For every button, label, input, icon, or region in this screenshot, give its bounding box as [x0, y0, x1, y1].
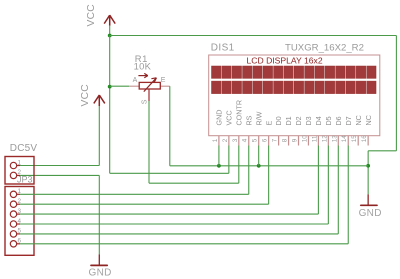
pin DIS1.5 R/W: [252, 111, 264, 145]
svg-text:NC: NC: [364, 115, 373, 125]
wire GND row: [170, 165, 368, 167]
svg-text:5: 5: [252, 138, 259, 142]
wire DC5V pin1 row: [20, 165, 99, 167]
wire right horizontal to pin16 column: [368, 150, 396, 152]
pin DIS1.4 RS: [242, 115, 254, 145]
pin DC5V.2: [10, 169, 21, 178]
wire LCD pin2 to VCC row: [228, 146, 230, 174]
LCD character cells: [212, 66, 377, 94]
svg-text:VCC: VCC: [224, 110, 233, 125]
svg-text:6: 6: [262, 138, 269, 142]
svg-text:D4: D4: [314, 116, 323, 125]
svg-text:2: 2: [222, 138, 229, 142]
wire JP3.3 to LCD pin 11: [20, 146, 318, 215]
svg-text:LCD DISPLAY 16x2: LCD DISPLAY 16x2: [247, 55, 323, 65]
svg-text:D5: D5: [324, 116, 333, 125]
svg-text:RS: RS: [244, 115, 253, 125]
pin DIS1.6 E: [262, 121, 274, 146]
svg-text:11: 11: [311, 135, 318, 142]
ground symbol GND (right): [359, 194, 382, 218]
svg-text:DIS1: DIS1: [211, 43, 235, 54]
svg-text:VCC: VCC: [80, 84, 91, 107]
power symbol VCC (left): [80, 84, 105, 107]
pin stub R1.S: [148, 89, 150, 101]
pin JP3.4: [10, 218, 21, 227]
wire R1.S down: [148, 101, 150, 183]
svg-text:GND: GND: [215, 110, 224, 126]
pin JP3.6: [10, 238, 21, 247]
wire right vertical: [395, 36, 397, 151]
node junction LCD pin5: [257, 164, 261, 168]
svg-text:NC: NC: [354, 115, 363, 125]
pin JP3.1: [10, 188, 21, 197]
svg-text:D7: D7: [344, 116, 353, 125]
connector JP3: [5, 175, 34, 256]
wire branch to R1 A: [110, 85, 130, 87]
node VCC top junction: [108, 34, 112, 38]
svg-text:15: 15: [351, 135, 358, 143]
ground symbol GND (left): [89, 254, 112, 278]
node junction LCD pin1: [217, 164, 221, 168]
svg-text:16: 16: [361, 135, 368, 143]
wire VCC vertical x=109.7: [109, 36, 111, 174]
svg-text:10: 10: [301, 135, 308, 143]
R1 adjust arrow: [138, 75, 147, 77]
wire R1.E down to GND row: [169, 86, 171, 166]
pin JP3.3: [10, 208, 21, 217]
wire pin16 column down to GND: [367, 151, 369, 195]
wire DC5V pin2 row: [20, 174, 99, 176]
LCD display DIS1 TUXGR_16X2_R2: [209, 43, 380, 136]
svg-text:VCC: VCC: [86, 4, 97, 27]
svg-text:GND: GND: [359, 208, 382, 219]
wire JP3.5 to LCD pin 13: [20, 146, 338, 234]
resistor R1 10K trimmer: [129, 53, 170, 104]
pin DC5V.1: [10, 159, 21, 168]
wire top horizontal bus: [110, 35, 397, 37]
svg-text:13: 13: [331, 135, 338, 143]
wire JP3.4 to LCD pin 12: [20, 146, 328, 225]
pin DIS1.13 D6: [331, 116, 343, 145]
svg-text:14: 14: [341, 135, 348, 143]
svg-text:JP3: JP3: [17, 175, 33, 185]
pin DIS1.15 NC: [351, 115, 363, 145]
svg-text:1: 1: [18, 159, 22, 166]
pin stub R1.A: [129, 85, 139, 87]
pin DIS1.8 D1: [282, 116, 294, 145]
R1 body: [139, 82, 160, 89]
svg-text:9: 9: [292, 138, 299, 142]
wire VCC2 stem down to DC5V pin1 row: [98, 106, 100, 166]
pin DIS1.2 VCC: [222, 110, 234, 145]
svg-text:TUXGR_16X2_R2: TUXGR_16X2_R2: [285, 43, 364, 54]
pin DIS1.7 D0: [272, 116, 284, 145]
wire LCD pin3 to CONTR row: [238, 146, 240, 184]
wire JP3.6 to LCD pin 14: [20, 146, 348, 244]
svg-text:GND: GND: [89, 268, 112, 279]
svg-text:R/W: R/W: [254, 111, 263, 125]
svg-text:S: S: [141, 99, 148, 104]
pin DIS1.12 D5: [321, 116, 333, 145]
wire LCD pin1 to GND row: [218, 146, 220, 166]
svg-text:12: 12: [321, 135, 328, 143]
wire VCC stem to junction: [109, 26, 111, 36]
svg-text:DC5V: DC5V: [10, 143, 38, 154]
svg-text:E: E: [161, 77, 166, 84]
svg-text:3: 3: [232, 138, 239, 142]
power symbol VCC (top): [86, 4, 115, 27]
connector DC5V: [5, 143, 37, 184]
wire CONTR row to LCD pin 3: [149, 182, 239, 184]
pin DIS1.3 CONTR: [232, 100, 244, 146]
svg-text:D2: D2: [294, 116, 303, 125]
pin stub R1.E: [160, 85, 170, 87]
wire VCC row to LCD pin 2: [110, 172, 229, 174]
pin JP3.5: [10, 228, 21, 237]
svg-text:CONTR: CONTR: [234, 100, 243, 126]
wire JP3.1 to LCD pin 4: [20, 146, 249, 195]
pin DIS1.16 NC: [361, 115, 373, 145]
wire DC5V pin2 down to GND: [98, 175, 100, 254]
svg-text:10K: 10K: [134, 60, 152, 71]
svg-text:1: 1: [212, 138, 219, 142]
pin JP3.2: [10, 198, 21, 207]
node junction at R1 A branch: [108, 85, 112, 89]
svg-text:E: E: [264, 121, 273, 126]
svg-text:8: 8: [282, 138, 289, 142]
node junction GND row / right column: [366, 164, 370, 168]
pin DIS1.9 D2: [292, 116, 304, 145]
svg-text:D3: D3: [304, 116, 313, 125]
svg-text:D1: D1: [284, 116, 293, 125]
wire JP3.2 to LCD pin 6: [20, 146, 269, 205]
svg-text:D0: D0: [274, 116, 283, 125]
pin DIS1.10 D3: [301, 116, 313, 145]
svg-text:A: A: [133, 77, 138, 84]
pin DIS1.1 GND: [212, 110, 224, 146]
R1 wiper diagonal: [144, 78, 157, 92]
pin DIS1.11 D4: [311, 116, 323, 145]
svg-text:4: 4: [242, 138, 249, 142]
wire LCD pin5 to GND row: [258, 146, 260, 166]
svg-text:7: 7: [272, 138, 279, 142]
svg-text:D6: D6: [334, 116, 343, 125]
pin DIS1.14 D7: [341, 116, 353, 145]
